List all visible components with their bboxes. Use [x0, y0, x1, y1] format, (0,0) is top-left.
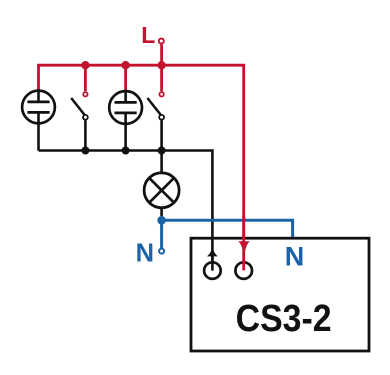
junction blue N [157, 216, 166, 225]
terminal CS3-2 input left [204, 262, 221, 279]
wire black inside terminal [211, 252, 214, 271]
wire red drop to switch S1 [84, 65, 87, 91]
module CS3-2 box [191, 238, 369, 351]
wire black into box (redraw over box edge) [211, 238, 214, 270]
terminal L [159, 39, 164, 44]
svg-text:CS3-2: CS3-2 [236, 296, 332, 339]
terminal N [159, 249, 164, 254]
junction red bus / E2 [121, 61, 129, 69]
glow lamp E1 [22, 91, 55, 151]
svg-text:N: N [136, 239, 154, 267]
junction red bus / L drop [157, 61, 165, 69]
glow lamp E2 [109, 91, 142, 150]
switch S2 [147, 98, 164, 151]
wire red inside terminal [242, 216, 245, 271]
wire lamp H1 to N junction [160, 209, 163, 217]
arrow black up [207, 246, 218, 256]
wire L drop to bus [160, 44, 163, 65]
svg-text:N: N [285, 241, 305, 271]
arrow red down [238, 241, 250, 259]
terminal switch S1 contact [83, 92, 87, 96]
junction red bus / S1 [81, 61, 89, 69]
wire red drop to glow lamp E2 [124, 65, 127, 90]
wire red drop to switch S2 [160, 65, 163, 91]
wire to lamp H1 [160, 151, 163, 173]
terminal switch S2 contact [159, 92, 163, 96]
wire red L bus with end drops [39, 65, 244, 270]
svg-text:L: L [141, 22, 155, 48]
terminal CS3-2 input right [235, 262, 252, 279]
junction black bus / E2 [122, 147, 130, 155]
wire blue N drop to terminal [160, 220, 163, 248]
junction black bus / S1 [81, 147, 89, 155]
wire black bus to CS3-2 [39, 151, 213, 271]
wire blue N to CS3-2 [162, 220, 293, 238]
junction black bus / S2 lamp [158, 147, 166, 155]
lamp H1 [144, 173, 179, 208]
switch S1 [71, 98, 88, 151]
